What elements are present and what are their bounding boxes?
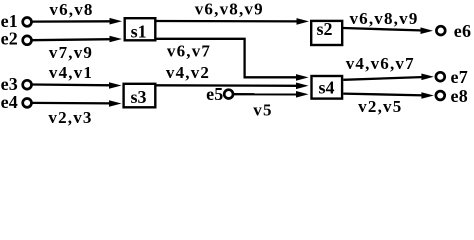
svg-text:v4,v2: v4,v2: [166, 63, 210, 82]
svg-text:e6: e6: [454, 21, 471, 41]
svg-text:e5: e5: [206, 84, 223, 104]
svg-text:v6,v8,v9: v6,v8,v9: [195, 0, 264, 18]
svg-text:v2,v5: v2,v5: [358, 97, 402, 116]
svg-text:s1: s1: [131, 21, 147, 41]
svg-text:s3: s3: [130, 87, 146, 107]
svg-text:e7: e7: [451, 67, 468, 87]
svg-text:v6,v7: v6,v7: [167, 42, 211, 61]
svg-text:v5: v5: [253, 101, 272, 120]
svg-text:s2: s2: [316, 19, 332, 39]
svg-text:v4,v6,v7: v4,v6,v7: [346, 54, 415, 73]
svg-text:e8: e8: [451, 86, 468, 106]
svg-text:v4,v1: v4,v1: [49, 63, 93, 82]
svg-text:v6,v8: v6,v8: [49, 0, 93, 19]
svg-text:e3: e3: [1, 74, 18, 94]
svg-text:e4: e4: [1, 92, 18, 112]
svg-text:v2,v3: v2,v3: [48, 108, 92, 127]
svg-text:e2: e2: [1, 29, 18, 49]
svg-text:v6,v8,v9: v6,v8,v9: [349, 9, 418, 28]
svg-text:s4: s4: [318, 78, 334, 98]
svg-text:v7,v9: v7,v9: [49, 43, 93, 62]
